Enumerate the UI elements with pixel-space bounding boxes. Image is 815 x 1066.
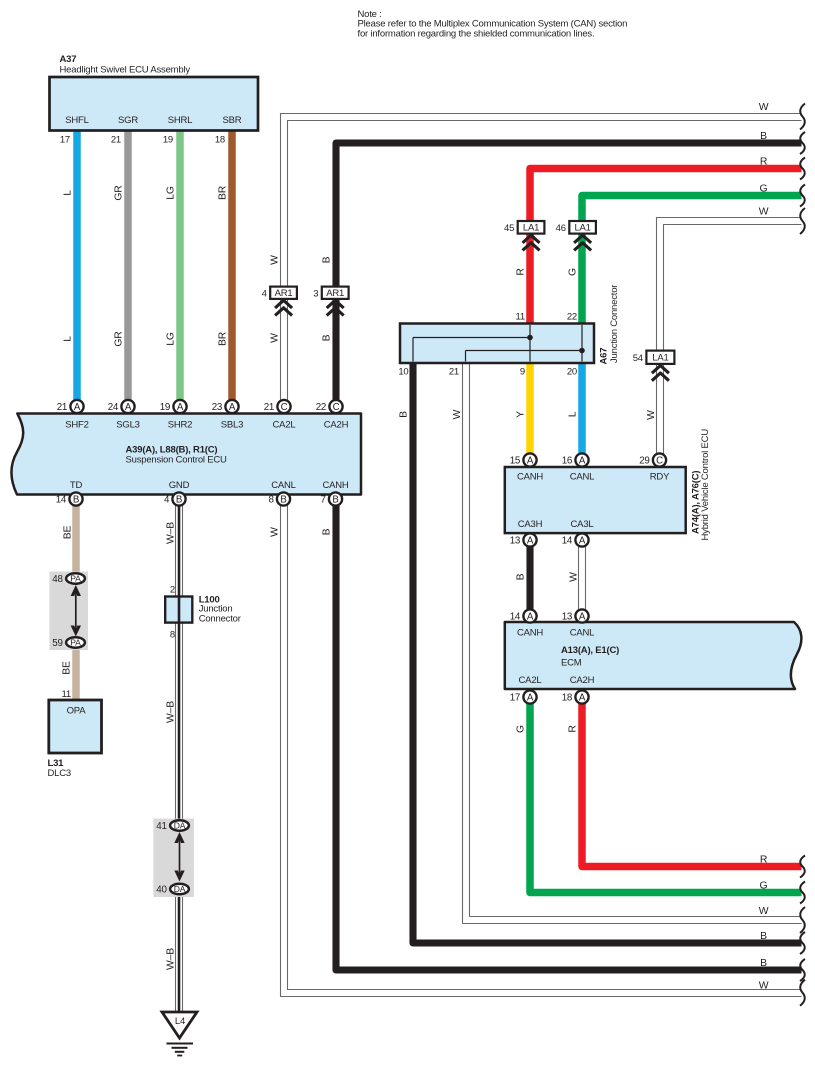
svg-text:W–B: W–B [165, 701, 176, 723]
svg-text:B: B [399, 411, 410, 418]
svg-text:W: W [646, 410, 657, 420]
svg-text:21: 21 [449, 367, 459, 378]
svg-text:45: 45 [504, 223, 514, 234]
svg-text:W: W [269, 527, 280, 537]
ECU A37 Headlight Swivel ECU Assembly [50, 54, 259, 131]
svg-text:Suspension Control ECU: Suspension Control ECU [126, 455, 228, 466]
svg-text:LA1: LA1 [652, 353, 668, 364]
svg-text:A: A [579, 536, 586, 547]
svg-text:AR1: AR1 [275, 288, 293, 299]
svg-text:B: B [760, 931, 767, 942]
pin 19(A) A39 SHR2 [160, 400, 187, 413]
component L31 DLC3 box with OPA terminal [48, 700, 102, 779]
svg-text:A: A [527, 456, 534, 467]
junction connector LA1 no.45 [504, 221, 544, 250]
svg-text:22: 22 [567, 312, 577, 323]
svg-text:B: B [176, 495, 182, 506]
svg-text:CA2L: CA2L [273, 420, 296, 431]
svg-text:SHF2: SHF2 [65, 420, 88, 431]
svg-text:48: 48 [52, 574, 63, 585]
ECU A39(A) L88(B) R1(C) Suspension Control ECU box [11, 414, 361, 495]
svg-text:A: A [527, 536, 534, 547]
svg-text:Hybrid Vehicle Control ECU: Hybrid Vehicle Control ECU [700, 429, 711, 541]
svg-text:G: G [516, 725, 527, 733]
svg-text:B: B [322, 528, 333, 535]
svg-text:7: 7 [320, 495, 325, 506]
svg-text:B: B [760, 131, 767, 142]
svg-text:18: 18 [215, 135, 225, 146]
pin 23(A) A39 SBL3 [212, 400, 239, 413]
svg-text:W: W [759, 207, 769, 218]
svg-text:CANH: CANH [517, 472, 543, 483]
svg-text:R: R [568, 725, 579, 733]
A67 internal bus CANL: pin 22 to pin 20 and pin 21 [466, 325, 585, 362]
svg-text:LA1: LA1 [574, 223, 590, 234]
svg-text:TD: TD [70, 480, 83, 491]
wire R (red) right edge via junction LA1 no.45 to A67 pin 11 [516, 157, 805, 326]
svg-text:Connector: Connector [199, 613, 241, 624]
svg-text:GR: GR [114, 185, 125, 201]
svg-text:CANL: CANL [570, 472, 595, 483]
svg-text:GND: GND [169, 480, 190, 491]
svg-text:17: 17 [60, 135, 70, 146]
ECU A74(A) A76(C) Hybrid Vehicle Control ECU box [505, 429, 711, 541]
svg-text:L: L [63, 190, 74, 196]
junction connector AR1 no.3 [313, 287, 348, 316]
wire LG (light green) A37 pin 19 to A39 pin 19 [163, 129, 180, 406]
svg-text:L: L [63, 336, 74, 342]
junction connector LA1 no.46 [556, 221, 596, 250]
svg-text:29: 29 [639, 456, 650, 467]
svg-text:16: 16 [562, 456, 573, 467]
junction connector L100 [165, 585, 241, 641]
svg-text:A: A [177, 402, 184, 413]
svg-text:W: W [759, 981, 769, 992]
svg-text:A: A [229, 402, 236, 413]
svg-text:2: 2 [170, 585, 175, 596]
svg-text:PA: PA [70, 574, 81, 584]
wire W (white/shield) A39 CA2L via junction AR1 no.4 to right edge [269, 102, 805, 406]
svg-text:20: 20 [567, 367, 577, 378]
svg-text:14: 14 [562, 536, 573, 547]
wire GR (gray) A37 pin 21 to A39 pin 24 [111, 129, 128, 406]
svg-text:L: L [568, 411, 579, 417]
svg-text:B: B [73, 495, 79, 506]
svg-text:CANH: CANH [517, 628, 543, 639]
ECU A13(A) E1(C) ECM box [505, 622, 802, 689]
pin 13(A) ECM CANL [562, 609, 589, 622]
svg-text:W: W [568, 572, 579, 582]
svg-text:11: 11 [62, 689, 71, 700]
svg-text:BE: BE [62, 661, 73, 675]
svg-text:14: 14 [510, 612, 521, 623]
svg-text:DLC3: DLC3 [48, 768, 72, 779]
junction connector LA1 no.54 [633, 351, 675, 381]
svg-text:SBL3: SBL3 [221, 420, 243, 431]
pin 21(C) A39 CA2L [264, 400, 291, 413]
svg-text:21: 21 [264, 402, 275, 413]
svg-text:CA2H: CA2H [570, 675, 595, 686]
wire B (black) A67 pin 10 to right edge [398, 363, 805, 954]
svg-text:B: B [280, 495, 286, 506]
svg-text:23: 23 [212, 402, 223, 413]
svg-text:C: C [281, 402, 288, 413]
junction connector AR1 no.4 [262, 287, 297, 316]
svg-text:13: 13 [562, 612, 573, 623]
svg-text:R: R [516, 268, 527, 276]
pin 29(C) hybrid ECU RDY [639, 453, 666, 466]
svg-text:40: 40 [156, 885, 167, 896]
svg-text:BR: BR [218, 185, 229, 200]
svg-text:11: 11 [516, 312, 525, 323]
svg-text:22: 22 [316, 402, 327, 413]
A67 internal bus CANH: pin 11 to pin 9 and pin 10 [413, 325, 533, 362]
note text [358, 9, 628, 39]
ground L4 [162, 1012, 197, 1056]
svg-text:PA: PA [70, 638, 81, 648]
wire W-B (white-black) A39 GND pin 4 to ground L4 via L100 and DA connectors [165, 499, 182, 1011]
svg-text:59: 59 [52, 638, 63, 649]
svg-text:LA1: LA1 [523, 223, 539, 234]
svg-text:SBR: SBR [223, 115, 242, 126]
wire G (green) right edge via junction LA1 no.46 to A67 pin 22 [567, 184, 805, 326]
svg-text:15: 15 [510, 456, 521, 467]
wire BR (brown) A37 pin 18 to A39 pin 23 [215, 129, 232, 406]
svg-text:C: C [656, 456, 663, 467]
svg-text:CANH: CANH [322, 480, 348, 491]
svg-text:W–B: W–B [165, 948, 176, 970]
pin 15(A) hybrid ECU CANH [510, 453, 537, 466]
svg-text:A: A [74, 402, 81, 413]
svg-text:CA2H: CA2H [324, 420, 349, 431]
wire B (black) hybrid CA3H pin 13 to ECM CANH pin 14 [516, 540, 530, 616]
wire L (blue) A67 pin 20 to hybrid ECU CANL pin 16 [567, 363, 582, 460]
svg-text:13: 13 [510, 536, 521, 547]
svg-text:LG: LG [166, 186, 177, 200]
wire BE (beige) A39 TD pin 14 to DLC3 pin 11 via PA connectors [62, 499, 76, 700]
svg-text:B: B [516, 573, 527, 580]
svg-text:B: B [332, 495, 338, 506]
svg-text:A13(A), E1(C): A13(A), E1(C) [561, 645, 619, 656]
pin 21(A) A39 SHF2 [57, 400, 84, 413]
svg-text:CA2L: CA2L [519, 675, 542, 686]
svg-text:W: W [269, 333, 280, 343]
wire G (green) ECM CA2L pin 17 to right edge [516, 697, 805, 904]
wire B (black) A39 CA2H via junction AR1 no.3 to right edge [322, 131, 805, 406]
svg-text:CA3L: CA3L [571, 519, 594, 530]
svg-text:CANL: CANL [271, 480, 296, 491]
svg-text:L4: L4 [175, 1016, 185, 1027]
wire R (red) ECM CA2H pin 18 to right edge [568, 697, 805, 878]
svg-text:A67: A67 [599, 348, 610, 365]
wire W (white/shield) A67 pin 21 to right edge [449, 363, 805, 933]
svg-text:BR: BR [218, 331, 229, 346]
svg-text:A: A [579, 456, 586, 467]
svg-text:W: W [269, 255, 280, 265]
svg-text:for information regarding the: for information regarding the shielded c… [358, 28, 595, 39]
svg-text:G: G [568, 268, 579, 276]
svg-text:21: 21 [111, 135, 121, 146]
svg-text:W: W [759, 102, 769, 113]
svg-text:C: C [333, 402, 340, 413]
svg-text:A: A [579, 612, 586, 623]
svg-text:46: 46 [556, 223, 566, 234]
svg-text:B: B [322, 256, 333, 263]
svg-text:41: 41 [156, 821, 167, 832]
svg-text:G: G [760, 184, 768, 195]
svg-text:CANL: CANL [570, 628, 595, 639]
junction connector A67 box [400, 285, 620, 365]
svg-text:OPA: OPA [67, 706, 87, 717]
svg-text:SHR2: SHR2 [168, 420, 193, 431]
pin 18(A) ECM CA2H [562, 690, 589, 703]
wire B (black) A39 CANH pin 7 to right edge [322, 499, 805, 981]
wire Y (yellow) A67 pin 9 to hybrid ECU CANH pin 15 [516, 363, 530, 460]
pin 14(A) hybrid ECU CA3L [562, 533, 589, 546]
pin 4(B) A39 GND [164, 492, 186, 505]
svg-text:18: 18 [562, 693, 573, 704]
in-line connector pair DA (41/40) with mating arrows [153, 819, 194, 897]
svg-text:GR: GR [114, 331, 125, 347]
pin 14(A) ECM CANH [510, 609, 537, 622]
wire W (white) hybrid CA3L pin 14 to ECM CANL pin 13 [568, 540, 585, 616]
svg-text:SHRL: SHRL [168, 115, 193, 126]
pin 13(A) hybrid ECU CA3H [510, 533, 537, 546]
svg-text:SGL3: SGL3 [116, 420, 140, 431]
svg-text:19: 19 [160, 402, 171, 413]
pin 14(B) A39 TD [56, 492, 83, 505]
svg-text:W: W [452, 409, 463, 419]
pin 17(A) ECM CA2L [510, 690, 537, 703]
svg-text:DA: DA [174, 821, 186, 831]
svg-text:Headlight Swivel ECU Assembly: Headlight Swivel ECU Assembly [60, 64, 191, 75]
wire W (white/shield) right edge via junction LA1 no.54 to hybrid ECU RDY pin 29 [646, 207, 805, 461]
svg-text:A: A [527, 693, 534, 704]
pin 16(A) hybrid ECU CANL [562, 453, 589, 466]
svg-text:Y: Y [516, 411, 527, 418]
svg-text:14: 14 [56, 495, 67, 506]
svg-text:8: 8 [268, 495, 274, 506]
svg-text:SHFL: SHFL [65, 115, 88, 126]
pin 7(B) A39 CANH [320, 492, 342, 505]
svg-text:G: G [760, 881, 768, 892]
svg-text:10: 10 [398, 367, 408, 378]
svg-text:DA: DA [174, 884, 186, 894]
svg-text:4: 4 [164, 495, 170, 506]
svg-text:A: A [125, 402, 132, 413]
svg-text:Junction Connector: Junction Connector [609, 285, 620, 363]
svg-text:9: 9 [520, 367, 525, 378]
svg-text:RDY: RDY [650, 472, 670, 483]
svg-text:LG: LG [166, 332, 177, 346]
svg-text:B: B [322, 334, 333, 341]
svg-text:19: 19 [163, 135, 173, 146]
svg-text:21: 21 [57, 402, 68, 413]
svg-text:24: 24 [108, 402, 119, 413]
svg-text:54: 54 [633, 353, 643, 364]
svg-text:ECM: ECM [561, 657, 582, 668]
svg-text:8: 8 [170, 630, 175, 641]
svg-text:3: 3 [313, 288, 318, 299]
svg-text:W: W [759, 906, 769, 917]
wire W (white/shield) A39 CANL pin 8 to right edge [269, 499, 805, 1006]
svg-text:4: 4 [262, 288, 267, 299]
svg-text:CA3H: CA3H [518, 519, 543, 530]
svg-text:17: 17 [510, 693, 521, 704]
in-line connector pair PA (48/59) with mating arrows [49, 572, 88, 651]
svg-text:BE: BE [63, 526, 74, 540]
pin 22(C) A39 CA2H [316, 400, 343, 413]
pin 8(B) A39 CANL [268, 492, 290, 505]
pin 24(A) A39 SGL3 [108, 400, 135, 413]
svg-text:B: B [760, 958, 767, 969]
svg-text:A: A [527, 612, 534, 623]
svg-text:R: R [760, 157, 768, 168]
svg-text:W–B: W–B [165, 522, 176, 544]
wire L (blue) A37 pin 17 to A39 pin 21 [60, 129, 77, 406]
svg-text:R: R [760, 855, 768, 866]
svg-text:SGR: SGR [118, 115, 138, 126]
svg-text:AR1: AR1 [326, 288, 344, 299]
svg-text:A: A [579, 693, 586, 704]
